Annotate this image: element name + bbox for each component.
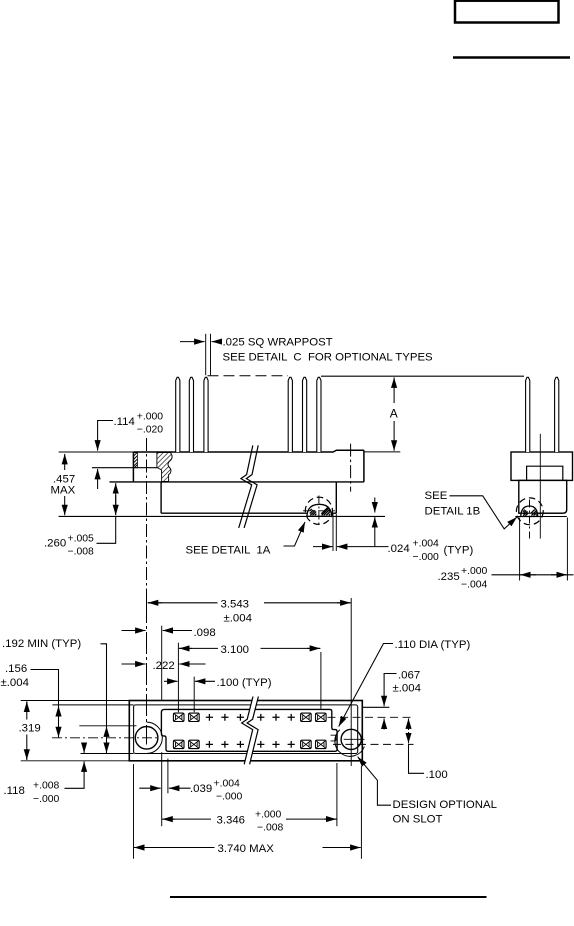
pin 4: [288, 377, 292, 452]
col ext up 178: [177, 643, 179, 713]
svg-text:−.008: −.008: [68, 546, 95, 557]
svg-text:−.000: −.000: [216, 792, 243, 803]
dim .025 arrow left: [180, 341, 205, 343]
dim A down arrow: [393, 421, 395, 451]
svg-text:3.100: 3.100: [221, 644, 250, 656]
top pin-tip line solid: [321, 375, 524, 377]
svg-text:.039: .039: [190, 783, 212, 795]
svg-text:.098: .098: [194, 627, 216, 639]
shell lip rect: [134, 705, 358, 754]
right hole horizontal tick: [344, 738, 365, 740]
contact cross A8: [288, 714, 295, 721]
body top ext left: [59, 451, 134, 453]
insulator outline: [161, 709, 337, 751]
skirt bottom edge right stub: [332, 512, 337, 514]
contact cross A6: [257, 714, 264, 721]
.024 ext vertical 2: [335, 514, 337, 551]
wrappost contact A2: [189, 713, 200, 721]
contact cross A5: [237, 714, 244, 721]
svg-text:.024: .024: [388, 543, 410, 555]
dim 3.100 line right: [261, 647, 321, 649]
svg-text:SEE: SEE: [425, 490, 448, 502]
contact cross A3: [206, 714, 213, 721]
dome 1B hatch left lobe: [523, 510, 528, 516]
dim .235 arrow left: [520, 574, 536, 576]
dim 3.543 arrow right: [337, 602, 351, 604]
dim .319 up arrow: [26, 702, 28, 712]
dome 1A horizontal centerline: [303, 510, 335, 512]
svg-text:.114: .114: [114, 416, 135, 428]
dim .156 up arrow: [58, 706, 60, 716]
body left edge: [132, 452, 134, 482]
dim .118 down arrow: [83, 743, 85, 753]
hole centerline lower segment: [146, 601, 148, 745]
contact cross A7: [272, 714, 279, 721]
pin 5: [303, 377, 307, 452]
body top edge: [133, 450, 364, 452]
dim .235 arrow right: [551, 574, 567, 576]
left mounting hole boss: [147, 722, 163, 753]
svg-text:ON SLOT: ON SLOT: [393, 813, 443, 825]
wrappost contact B9: [301, 740, 312, 748]
skirt left edge: [160, 482, 162, 513]
svg-text:.457: .457: [53, 473, 75, 485]
svg-text:±.004: ±.004: [393, 682, 421, 694]
svg-text:+.000: +.000: [461, 566, 488, 577]
end notch: [527, 466, 563, 480]
pin 1: [176, 377, 180, 452]
dim .192 down arrow: [106, 743, 108, 753]
3.740 ext left down: [133, 764, 135, 859]
dim .100R stem to text: [409, 744, 425, 773]
dim 3.543 arrow left: [148, 602, 162, 604]
dome 1B vertical centerline: [529, 500, 531, 539]
left mounting hole: [135, 727, 158, 750]
dim 3.543 line left: [148, 602, 218, 604]
.235 ext right: [566, 518, 568, 581]
svg-text:+.000: +.000: [137, 412, 164, 423]
dim .260 up arrow: [115, 483, 117, 510]
insulator top ext right: [362, 706, 389, 708]
dome 1B hatch right lobe: [531, 509, 537, 515]
dim .024 horiz arrow right: [337, 546, 389, 548]
CONTACTS: [173, 713, 326, 749]
svg-text:.118: .118: [4, 785, 25, 797]
insulator left ext down: [161, 752, 163, 826]
bottom rule: [170, 896, 487, 898]
pin 2: [189, 377, 193, 452]
dim 3.100 arrow left: [179, 647, 192, 649]
detail circle 1B: [516, 498, 543, 525]
svg-text:.319: .319: [19, 722, 41, 734]
svg-text:.110 DIA (TYP): .110 DIA (TYP): [395, 639, 471, 651]
wrappost width ext left: [205, 334, 207, 375]
dim 3.346 arrow right: [324, 818, 336, 820]
skirt bottom edge: [161, 512, 307, 514]
dim .192 up arrow: [106, 726, 108, 736]
body right edge: [363, 450, 365, 482]
left hatched wall: [133, 453, 137, 468]
end flange: [511, 452, 573, 480]
svg-text:.067: .067: [398, 669, 420, 681]
wrappost contact A9: [301, 713, 312, 721]
leader design optional: [358, 757, 391, 806]
contact cross B4: [221, 741, 228, 748]
.235 ext left: [519, 518, 521, 581]
dim .260 down arrow: [115, 495, 117, 515]
dim .067 up arrow: [383, 719, 385, 730]
svg-text:(TYP): (TYP): [444, 544, 474, 556]
dome 1A vertical centerline: [318, 496, 320, 528]
lip bottom ext left: [81, 753, 134, 755]
dim .100 arrow right: [195, 680, 215, 682]
pin 3: [204, 377, 208, 452]
insulator hatched section: [157, 453, 172, 482]
dim .100R down arrow: [408, 732, 410, 743]
dim .024 vert up arrow: [374, 517, 376, 547]
contact cross A4: [221, 714, 228, 721]
contact cross B3: [206, 741, 213, 748]
col1 ext up: [161, 626, 163, 701]
svg-text:±.004: ±.004: [224, 612, 252, 624]
outer shell rect: [129, 701, 362, 761]
dim .114 up arrow: [97, 469, 99, 489]
end seating line: [515, 516, 567, 518]
svg-text:+.005: +.005: [68, 533, 95, 544]
break line right: [244, 445, 258, 528]
right mounting hole: [341, 729, 361, 749]
wrappost contact B1: [173, 740, 184, 748]
svg-text:.025 SQ WRAPPOST: .025 SQ WRAPPOST: [223, 337, 333, 349]
svg-text:+.008: +.008: [33, 780, 60, 791]
dim .260 leader: [97, 516, 116, 543]
contact cross B7: [272, 741, 279, 748]
hole tangent ext left: [79, 725, 136, 727]
svg-text:+.004: +.004: [214, 779, 241, 790]
3.346 ext right down: [336, 763, 338, 826]
dim .319 down arrow: [26, 749, 28, 760]
svg-text:A: A: [390, 406, 398, 420]
svg-text:SEE DETAIL C FOR OPTIONAL TY: SEE DETAIL C FOR OPTIONAL TYPES: [223, 351, 434, 363]
dim .024 vert down arrow: [374, 498, 376, 513]
dome 1A hatch right lobe: [321, 507, 330, 515]
leader .192: [101, 644, 107, 753]
skirt bottom line through dome: [519, 512, 563, 514]
dim .114 leader and down arrow: [98, 421, 113, 451]
svg-text:SEE DETAIL 1A: SEE DETAIL 1A: [186, 544, 271, 556]
dim .024 horiz arrow left: [313, 546, 333, 548]
wrappost width ext right: [210, 334, 212, 375]
leader .118: [65, 761, 85, 788]
ear bottom edge: [92, 467, 160, 469]
dim 3.740 arrow right: [348, 847, 361, 849]
dim 3.740 line right: [323, 847, 361, 849]
right hole centerline ext up: [350, 598, 352, 766]
contact centerline right: [350, 444, 352, 492]
dim 3.740 arrow left: [134, 847, 147, 849]
bottom break line right: [247, 697, 258, 765]
right hole slot boss arc: [335, 730, 365, 757]
end skirt: [519, 480, 567, 513]
leader .110 dia: [339, 644, 393, 727]
svg-text:.100 (TYP): .100 (TYP): [217, 677, 272, 689]
dim .156 down arrow: [58, 727, 60, 737]
dim .457 down arrow: [64, 496, 66, 515]
.024 ext vertical 1: [332, 514, 334, 551]
.039 ext down: [167, 759, 169, 794]
svg-text:.235: .235: [438, 571, 460, 583]
dim .098 arrow left: [122, 630, 146, 632]
dim .039 arrow right: [169, 787, 191, 789]
dim .457 up arrow: [64, 454, 66, 470]
svg-text:+.004: +.004: [413, 538, 440, 549]
svg-text:±.004: ±.004: [1, 677, 29, 689]
svg-text:.192 MIN (TYP): .192 MIN (TYP): [2, 638, 81, 650]
break line left: [239, 445, 253, 528]
title box: [455, 1, 559, 23]
dim .100 arrow left: [164, 680, 178, 682]
dim 3.543 line right: [264, 602, 351, 604]
svg-text:3.346: 3.346: [217, 814, 246, 826]
dim 3.100 arrow right: [307, 647, 320, 649]
leader .067 down arrow: [384, 674, 396, 707]
leader see detail 1B: [450, 496, 518, 529]
svg-text:+.000: +.000: [255, 810, 282, 821]
dim .100R up arrow: [408, 718, 410, 730]
dim .222 arrow right: [179, 663, 205, 665]
dim 3.100 line left: [179, 647, 218, 649]
dim 3.346 line left: [162, 818, 211, 820]
dim 3.346 arrow left: [162, 818, 175, 820]
bottom break line left: [242, 697, 253, 765]
svg-text:−.004: −.004: [461, 579, 488, 590]
row 2 dashed ext right: [333, 743, 414, 745]
seating plane line: [59, 515, 385, 517]
leader see detail 1A: [284, 522, 306, 546]
standoff dome 1A: [307, 504, 332, 516]
dim 3.740 line left: [134, 847, 215, 849]
end view centerline: [539, 434, 541, 539]
dim .235 line: [492, 574, 574, 576]
dim A up arrow: [393, 377, 395, 403]
dim .025 arrow right: [212, 341, 220, 343]
standoff dome 1B: [521, 506, 538, 517]
body bottom edge: [110, 481, 364, 483]
shell bottom ext left: [21, 760, 130, 762]
col ext up 194: [193, 677, 195, 713]
A dim body-top ext right: [364, 451, 400, 453]
lip top ext left: [52, 704, 133, 706]
leader .156: [31, 670, 59, 738]
hole centerline left: [146, 438, 148, 601]
col ext up 320: [320, 652, 322, 709]
svg-text:.260: .260: [44, 537, 66, 549]
contact cross B8: [288, 741, 295, 748]
svg-text:−.000: −.000: [33, 794, 60, 805]
pin 6: [317, 377, 321, 452]
right hole slot notch: [331, 735, 336, 741]
svg-text:.222: .222: [153, 660, 175, 672]
hole centerline ext left: [52, 737, 158, 739]
svg-text:−.020: −.020: [137, 425, 164, 436]
bottom break mask: [242, 697, 259, 765]
dim .098 arrow right: [163, 630, 192, 632]
contact cross B5: [237, 741, 244, 748]
svg-text:−.008: −.008: [257, 823, 284, 834]
wrappost contact A10: [316, 713, 327, 721]
svg-text:DESIGN OPTIONAL: DESIGN OPTIONAL: [393, 799, 497, 811]
wrappost contact A1: [173, 713, 184, 721]
row 1 dashed ext right: [328, 716, 414, 718]
dim .039 arrow left: [139, 787, 160, 789]
dim 3.346 line right: [286, 818, 337, 820]
shell top ext left: [21, 700, 130, 702]
svg-text:3.740 MAX: 3.740 MAX: [218, 843, 275, 855]
svg-text:3.543: 3.543: [221, 598, 250, 610]
title underline: [453, 56, 570, 58]
3.740 ext right down: [360, 766, 362, 859]
svg-text:.100: .100: [426, 769, 448, 781]
dome 1A hatch left lobe: [310, 509, 317, 515]
end pin 1: [526, 377, 530, 452]
dim .222 arrow left: [122, 663, 146, 665]
skirt right edge: [335, 482, 337, 513]
wrappost contact B10: [316, 740, 327, 748]
svg-text:DETAIL 1B: DETAIL 1B: [425, 505, 481, 517]
svg-text:−.000: −.000: [413, 552, 440, 563]
top pin-tip line dashed: [208, 375, 289, 377]
svg-text:.156: .156: [5, 663, 27, 675]
dim .319 line: [26, 702, 28, 720]
wrappost contact B2: [189, 740, 200, 748]
contact cross B6: [257, 741, 264, 748]
detail circle 1A: [305, 497, 332, 524]
svg-text:MAX: MAX: [51, 485, 76, 497]
end pin 2: [555, 377, 559, 452]
